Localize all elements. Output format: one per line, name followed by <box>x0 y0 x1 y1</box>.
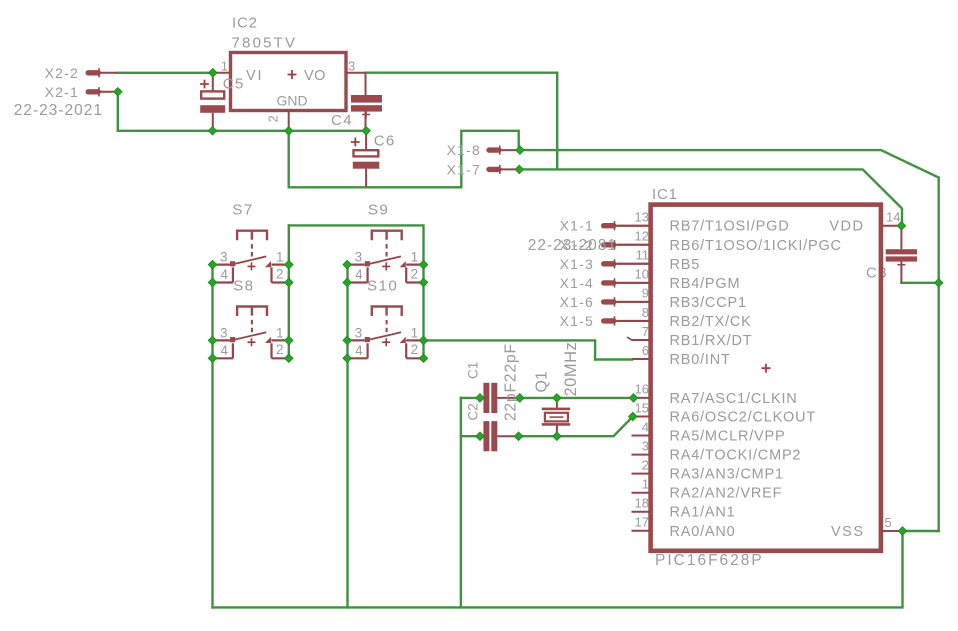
IC1 pin 11 RB5 <box>617 263 651 265</box>
svg-text:RA3/AN3/CMP1: RA3/AN3/CMP1 <box>670 467 784 483</box>
switch S7 button bracket <box>237 231 267 241</box>
svg-text:PIC16F628P: PIC16F628P <box>655 552 764 569</box>
svg-text:9: 9 <box>642 286 649 301</box>
svg-text:RA5/MCLR/VPP: RA5/MCLR/VPP <box>670 429 786 445</box>
svg-text:S9: S9 <box>368 202 389 219</box>
svg-text:VO: VO <box>304 68 326 84</box>
junction RA7 pin 16 <box>629 394 638 403</box>
svg-text:S10: S10 <box>367 277 398 294</box>
svg-text:RA1/AN1: RA1/AN1 <box>670 505 736 521</box>
svg-text:VSS: VSS <box>831 524 865 540</box>
svg-text:C6: C6 <box>374 133 396 150</box>
junction C1 left <box>476 394 485 403</box>
svg-text:X1-8: X1-8 <box>447 142 481 158</box>
svg-text:C1: C1 <box>465 362 480 379</box>
svg-text:13: 13 <box>635 210 649 225</box>
wire VSS to right edge <box>903 530 939 532</box>
junction Q1 top <box>553 394 562 403</box>
svg-text:RB2/TX/CK: RB2/TX/CK <box>670 314 752 330</box>
svg-text:RA7/ASC1/CLKIN: RA7/ASC1/CLKIN <box>670 391 798 407</box>
junction X2-1 <box>114 88 123 97</box>
svg-text:S7: S7 <box>232 202 253 219</box>
svg-text:4: 4 <box>642 419 649 434</box>
svg-text:1: 1 <box>276 250 284 265</box>
svg-text:RB0/INT: RB0/INT <box>670 352 731 368</box>
connector pin X2-1 <box>88 89 98 94</box>
junction C2 right <box>514 432 523 441</box>
connector pin X1-3 <box>604 261 614 266</box>
IC1 pin 18 RA1/AN1 <box>632 511 651 513</box>
switch S10 lever <box>366 332 401 340</box>
IC1 pin 9 RB3/CCP1 <box>617 301 651 303</box>
IC1 pin 13 RB7/T1OSI/PGD <box>617 225 651 227</box>
svg-text:2: 2 <box>276 342 284 357</box>
IC1 pin 7 tick mark <box>627 337 632 340</box>
junction IC2 GND rail <box>284 127 293 136</box>
svg-text:20MHz: 20MHz <box>562 342 580 397</box>
svg-text:C2: C2 <box>465 403 480 420</box>
svg-text:X1-4: X1-4 <box>560 275 594 291</box>
svg-text:RB3/CCP1: RB3/CCP1 <box>670 295 747 311</box>
switch S8 button bracket <box>237 307 267 317</box>
svg-text:8: 8 <box>642 305 649 320</box>
IC1 pin 4 RA5/MCLR/VPP <box>632 435 651 437</box>
switch S9 pins 3-4 bracket <box>347 265 367 283</box>
wire 7805 VO down to X1-7 net <box>366 73 558 169</box>
connector pin X1-2 with value 22-23-2081 <box>604 242 614 247</box>
svg-text:1: 1 <box>411 325 419 340</box>
IC1 pin 16 RA7/ASC1/CLKIN <box>634 397 651 399</box>
svg-text:3: 3 <box>220 325 228 340</box>
IC1 pin 12 RB6/T1OSO/1ICKI/PGC <box>617 244 651 246</box>
svg-text:RA4/TOCKI/CMP2: RA4/TOCKI/CMP2 <box>670 448 802 464</box>
junction C3 right edge <box>934 279 943 288</box>
svg-text:X1-3: X1-3 <box>560 256 594 272</box>
svg-text:4: 4 <box>220 267 228 282</box>
svg-text:RB7/T1OSI/PGD: RB7/T1OSI/PGD <box>670 219 790 235</box>
svg-text:18: 18 <box>635 496 649 511</box>
IC1 pin 5 VSS <box>881 530 903 532</box>
svg-text:4: 4 <box>355 343 363 358</box>
svg-text:C4: C4 <box>331 112 353 129</box>
svg-text:C5: C5 <box>223 76 245 93</box>
IC1 pin 15 RA6/OSC2/CLKOUT <box>633 416 651 418</box>
switch S8 lever <box>232 332 267 340</box>
connector pin X1-5 <box>604 318 614 323</box>
voltage regulator IC2 7805TV body <box>231 53 347 111</box>
svg-text:2: 2 <box>642 457 649 472</box>
svg-text:2: 2 <box>411 342 419 357</box>
switch S7 pin junction dots <box>208 260 217 269</box>
wire S7/S8 right column <box>288 225 290 359</box>
capacitor C2 <box>480 435 519 437</box>
connector pin X1-4 <box>604 280 614 285</box>
svg-text:Q1: Q1 <box>534 371 551 392</box>
IC1 pin 10 RB4/PGM <box>617 282 651 284</box>
junction C2 left <box>476 432 485 441</box>
wire xtal bottom left segment <box>461 435 480 437</box>
wire xtal ground column <box>460 398 462 608</box>
capacitor C4 <box>365 73 367 131</box>
svg-text:3: 3 <box>220 250 228 265</box>
switch S9 lever <box>366 256 401 264</box>
capacitor C3 <box>900 226 902 283</box>
switch S10 pins 1-2 bracket <box>406 340 423 358</box>
wire X2-2 to 7805 VI node <box>118 72 213 74</box>
svg-text:5: 5 <box>885 515 892 530</box>
switch S9 pin junction dots <box>343 260 352 269</box>
svg-text:VDD: VDD <box>829 219 864 235</box>
connector pin X2-2 <box>88 70 98 75</box>
junction Q1 bottom <box>553 432 562 441</box>
svg-text:7: 7 <box>642 324 649 339</box>
wire S9/S10 left column to ground <box>346 265 348 608</box>
connector pin X1-1 <box>604 223 614 228</box>
switch S9 button bracket <box>372 231 402 241</box>
svg-text:22-23-2021: 22-23-2021 <box>14 102 103 119</box>
svg-text:X1-5: X1-5 <box>560 313 594 329</box>
wire X2-1 down to GND rail <box>118 92 366 131</box>
svg-text:RB6/T1OSO/1ICKI/PGC: RB6/T1OSO/1ICKI/PGC <box>670 238 842 254</box>
switch S8 pins 1-2 bracket <box>272 340 289 358</box>
switch S10 pins 3-4 bracket <box>347 340 367 358</box>
svg-text:11: 11 <box>636 248 650 263</box>
capacitor C1 <box>480 397 520 399</box>
IC1 pin 1 RA2/AN2/VREF <box>632 492 651 494</box>
svg-text:12: 12 <box>635 229 649 244</box>
switch S7 lever <box>232 256 267 264</box>
svg-text:IC1: IC1 <box>652 186 678 203</box>
svg-text:22-23-2081: 22-23-2081 <box>528 237 617 254</box>
wire GND rail loop to X1-8 node <box>289 131 519 188</box>
svg-text:4: 4 <box>220 343 228 358</box>
IC1 pin 3 RA4/TOCKI/CMP2 <box>632 454 651 456</box>
switch S10 button bracket <box>372 307 402 317</box>
svg-text:RB4/PGM: RB4/PGM <box>670 276 741 292</box>
svg-text:X1-1: X1-1 <box>560 218 594 234</box>
junction C1 right <box>516 394 525 403</box>
wire X1-8 net to right edge down to VSS <box>520 150 939 531</box>
svg-text:1: 1 <box>221 59 228 74</box>
wire S10 pin1 to RB0 pin 6 <box>424 340 633 359</box>
svg-text:X1-7: X1-7 <box>447 161 481 177</box>
IC1 pin 14 VDD <box>881 225 902 227</box>
svg-text:X2-2: X2-2 <box>45 65 79 81</box>
wire C3 bottom to right edge <box>901 282 938 284</box>
svg-text:15: 15 <box>635 400 649 415</box>
junction C5 top / VI <box>209 69 218 78</box>
switch S7 pins 1-2 bracket <box>272 265 289 283</box>
svg-text:C3: C3 <box>866 265 888 282</box>
IC2 pin 1 VI <box>213 72 231 74</box>
svg-text:3: 3 <box>642 438 649 453</box>
wire C1 to RA7 pin 16 <box>520 397 634 399</box>
svg-text:16: 16 <box>635 382 649 397</box>
capacitor C6 polarized <box>365 131 367 188</box>
connector pin X1-7 <box>489 167 499 172</box>
svg-text:3: 3 <box>348 59 355 74</box>
connector pin X1-6 <box>604 299 614 304</box>
svg-text:RB1/RX/DT: RB1/RX/DT <box>670 333 753 349</box>
IC1 pin 8 RB2/TX/CK <box>617 320 651 322</box>
IC1 pin 6 RB0/INT <box>632 358 651 360</box>
wire switch top bus to S9/S10 right column <box>289 225 424 359</box>
connector pin X1-8 <box>489 147 499 152</box>
wire ground rail bottom <box>213 531 903 607</box>
svg-text:10: 10 <box>635 267 649 282</box>
switch S8 pin junction dots <box>208 336 217 345</box>
switch S9 pins 1-2 bracket <box>406 265 423 283</box>
junction RA6 pin 15 <box>629 412 638 421</box>
svg-text:RB5: RB5 <box>670 257 701 273</box>
svg-text:1: 1 <box>411 250 419 265</box>
IC2 pin 3 VO <box>346 72 366 74</box>
wire S7/S8 left column to ground <box>211 265 213 608</box>
svg-text:4: 4 <box>355 267 363 282</box>
junction C4/C6 rail <box>362 127 371 136</box>
svg-text:17: 17 <box>635 515 649 530</box>
svg-text:3: 3 <box>355 250 363 265</box>
wire C2 to RA6 pin 15 with diagonal <box>519 417 633 437</box>
svg-text:GND: GND <box>277 93 308 109</box>
svg-text:RA2/AN2/VREF: RA2/AN2/VREF <box>670 486 783 502</box>
switch S8 pins 3-4 bracket <box>213 340 233 358</box>
microcontroller IC1 PIC16F628P body <box>651 205 881 551</box>
capacitor C5 polarized <box>212 73 214 131</box>
IC1 origin cross <box>762 364 771 373</box>
junction X1-8 <box>516 146 525 155</box>
svg-text:2: 2 <box>276 266 284 281</box>
IC1 pin 7 RB1/RX/DT <box>632 339 651 341</box>
IC1 pin 17 RA0/AN0 <box>632 530 651 532</box>
svg-text:RA6/OSC2/CLKOUT: RA6/OSC2/CLKOUT <box>670 410 817 426</box>
svg-text:2: 2 <box>266 115 281 122</box>
svg-text:RA0/AN0: RA0/AN0 <box>670 524 736 540</box>
svg-text:1: 1 <box>642 477 649 492</box>
svg-text:S8: S8 <box>233 277 254 294</box>
svg-text:1: 1 <box>276 325 284 340</box>
svg-text:X1-6: X1-6 <box>560 294 594 310</box>
junction X1-7 <box>515 165 524 174</box>
svg-text:2: 2 <box>411 266 419 281</box>
svg-text:3: 3 <box>355 325 363 340</box>
svg-text:X2-1: X2-1 <box>45 84 79 100</box>
junction C5 bottom rail <box>208 127 217 136</box>
IC2 origin cross <box>288 70 297 79</box>
svg-text:22pF22pF: 22pF22pF <box>503 343 520 421</box>
svg-text:VI: VI <box>246 68 263 84</box>
wire xtal top left segment <box>461 397 480 399</box>
svg-text:7805TV: 7805TV <box>232 35 298 52</box>
IC2 pin 2 GND <box>288 111 290 131</box>
switch S7 pins 3-4 bracket <box>213 265 233 283</box>
junction VSS <box>898 527 907 536</box>
svg-text:IC2: IC2 <box>232 15 258 32</box>
crystal Q1 20MHz <box>556 398 558 436</box>
IC1 pin 2 RA3/AN3/CMP1 <box>632 473 651 475</box>
svg-text:6: 6 <box>642 343 649 358</box>
svg-text:14: 14 <box>886 210 900 225</box>
junction VDD C3 <box>897 221 906 230</box>
switch S10 pin junction dots <box>343 336 352 345</box>
wire X1-7 net to VDD pin 14 <box>519 169 902 225</box>
